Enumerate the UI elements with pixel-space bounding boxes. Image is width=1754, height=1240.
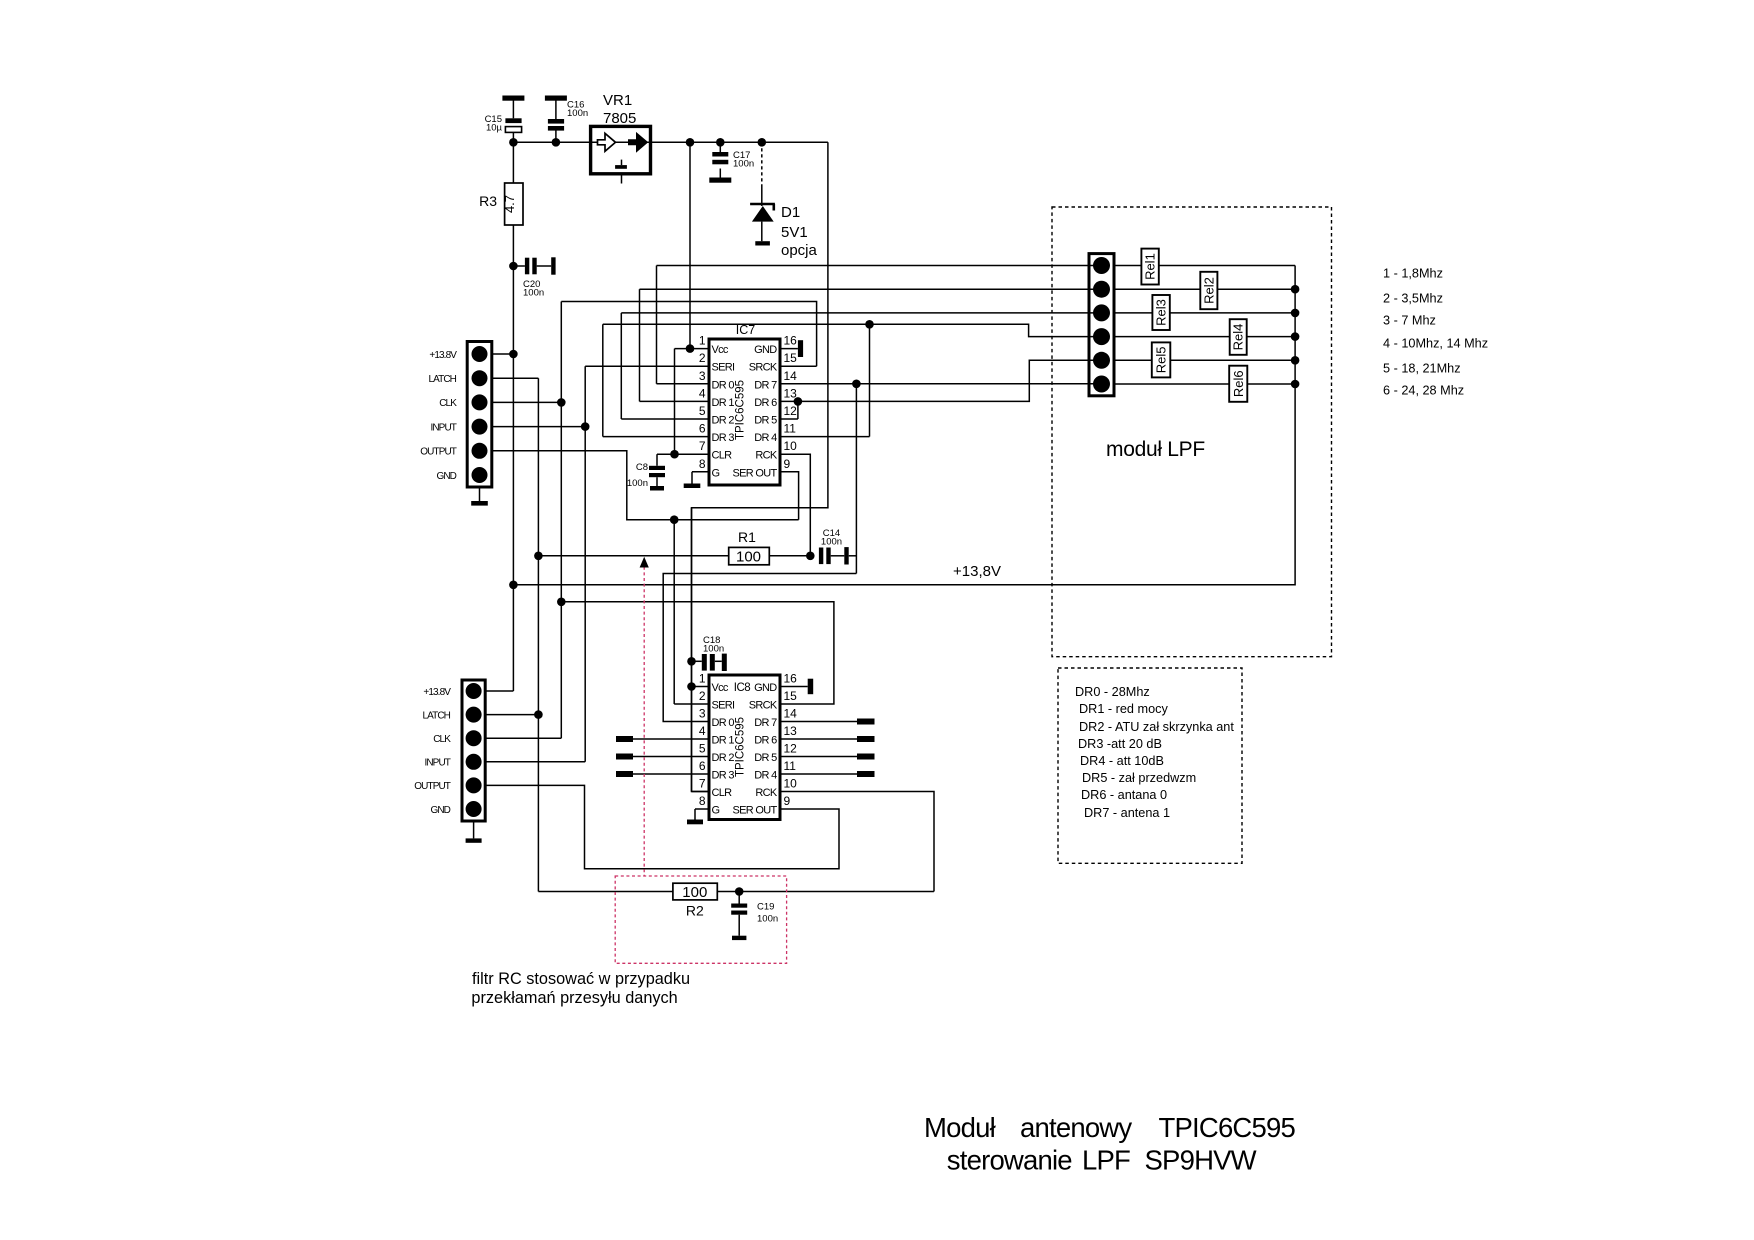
svg-text:GND: GND <box>754 344 777 356</box>
svg-text:TPIC6C595: TPIC6C595 <box>735 380 747 440</box>
svg-text:GND: GND <box>436 471 456 482</box>
svg-text:DR 3: DR 3 <box>712 432 735 444</box>
svg-text:14: 14 <box>784 369 798 383</box>
svg-text:16: 16 <box>784 334 798 348</box>
svg-text:SERI: SERI <box>712 362 736 374</box>
svg-text:11: 11 <box>784 422 797 436</box>
svg-text:C19: C19 <box>757 902 774 913</box>
svg-text:16: 16 <box>784 672 798 686</box>
svg-text:1: 1 <box>699 672 706 686</box>
svg-text:14: 14 <box>784 707 798 721</box>
svg-text:9: 9 <box>784 794 791 808</box>
svg-text:G: G <box>712 805 720 817</box>
svg-text:DR 4: DR 4 <box>754 432 777 444</box>
svg-text:100: 100 <box>736 548 761 565</box>
svg-text:opcja: opcja <box>781 242 818 259</box>
svg-text:1: 1 <box>699 334 706 348</box>
svg-text:10: 10 <box>784 439 798 453</box>
svg-text:100n: 100n <box>567 108 588 119</box>
svg-text:INPUT: INPUT <box>424 758 450 769</box>
svg-text:IC7: IC7 <box>736 323 756 337</box>
svg-text:100n: 100n <box>703 644 724 655</box>
svg-text:2: 2 <box>699 689 706 703</box>
svg-text:DR4 - att 10dB: DR4 - att 10dB <box>1080 754 1164 768</box>
svg-text:DR3 -att 20 dB: DR3 -att 20 dB <box>1078 737 1162 751</box>
svg-text:DR2 - ATU zał skrzynka ant: DR2 - ATU zał skrzynka ant <box>1079 720 1234 734</box>
svg-text:7: 7 <box>699 439 706 453</box>
svg-text:Rel2: Rel2 <box>1201 277 1216 304</box>
svg-text:6: 6 <box>699 759 706 773</box>
svg-text:LATCH: LATCH <box>422 710 450 721</box>
svg-text:SERI: SERI <box>712 700 736 712</box>
svg-text:SER OUT: SER OUT <box>733 467 778 479</box>
svg-text:7: 7 <box>699 777 706 791</box>
svg-text:3: 3 <box>699 369 706 383</box>
svg-text:100n: 100n <box>627 478 648 489</box>
svg-text:CLK: CLK <box>433 734 451 745</box>
svg-text:1 - 1,8Mhz: 1 - 1,8Mhz <box>1383 267 1443 281</box>
svg-text:DR 1: DR 1 <box>712 397 735 409</box>
svg-text:2: 2 <box>699 351 706 365</box>
svg-text:6: 6 <box>699 422 706 436</box>
svg-text:DR 5: DR 5 <box>754 415 777 427</box>
svg-text:DR 5: DR 5 <box>754 752 777 764</box>
svg-text:+13.8V: +13.8V <box>429 350 457 361</box>
svg-text:moduł LPF: moduł LPF <box>1106 438 1205 461</box>
svg-text:R2: R2 <box>686 903 704 919</box>
svg-text:filtr RC stosować w przypadku: filtr RC stosować w przypadku <box>472 970 690 988</box>
svg-text:ModułantenowyTPIC6C595: ModułantenowyTPIC6C595 <box>924 1112 1295 1143</box>
svg-text:R3: R3 <box>479 193 497 209</box>
svg-text:15: 15 <box>784 689 798 703</box>
svg-text:CLK: CLK <box>439 398 457 409</box>
svg-text:Vcc: Vcc <box>712 344 729 356</box>
svg-text:10µ: 10µ <box>486 123 503 134</box>
svg-text:DR 6: DR 6 <box>754 397 777 409</box>
svg-text:DR 4: DR 4 <box>754 770 777 782</box>
svg-text:2 - 3,5Mhz: 2 - 3,5Mhz <box>1383 291 1443 305</box>
svg-text:GND: GND <box>430 805 450 816</box>
svg-text:+13.8V: +13.8V <box>423 687 451 698</box>
svg-text:3: 3 <box>699 707 706 721</box>
svg-text:DR 0: DR 0 <box>712 379 735 391</box>
svg-text:3 - 7 Mhz: 3 - 7 Mhz <box>1383 314 1436 328</box>
svg-text:5V1: 5V1 <box>781 224 808 241</box>
svg-text:6 - 24, 28 Mhz: 6 - 24, 28 Mhz <box>1383 384 1464 398</box>
svg-text:5: 5 <box>699 404 706 418</box>
svg-text:13: 13 <box>784 724 798 738</box>
svg-text:OUTPUT: OUTPUT <box>420 447 457 458</box>
svg-text:100n: 100n <box>523 288 544 299</box>
svg-text:DR7 - antena 1: DR7 - antena 1 <box>1084 806 1170 820</box>
svg-text:12: 12 <box>784 404 798 418</box>
svg-text:DR 6: DR 6 <box>754 735 777 747</box>
svg-text:100n: 100n <box>733 159 754 170</box>
svg-text:15: 15 <box>784 351 798 365</box>
svg-text:7805: 7805 <box>603 110 636 127</box>
svg-text:przekłamań przesyłu danych: przekłamań przesyłu danych <box>471 989 677 1007</box>
svg-text:R1: R1 <box>738 529 756 545</box>
svg-text:INPUT: INPUT <box>430 422 456 433</box>
svg-text:5: 5 <box>699 742 706 756</box>
svg-text:DR 3: DR 3 <box>712 770 735 782</box>
svg-text:4: 4 <box>699 386 706 400</box>
svg-text:DR6 - antana 0: DR6 - antana 0 <box>1081 788 1167 802</box>
svg-text:SER OUT: SER OUT <box>733 805 778 817</box>
svg-text:sterowanieLPFSP9HVW: sterowanieLPFSP9HVW <box>947 1145 1257 1176</box>
svg-text:+13,8V: +13,8V <box>953 563 1001 580</box>
svg-text:DR 0: DR 0 <box>712 717 735 729</box>
svg-text:Vcc: Vcc <box>712 682 729 694</box>
svg-text:Rel1: Rel1 <box>1143 253 1158 280</box>
svg-text:9: 9 <box>784 457 791 471</box>
svg-text:100: 100 <box>682 884 707 901</box>
svg-text:11: 11 <box>784 759 797 773</box>
svg-text:GND: GND <box>754 682 777 694</box>
svg-text:Rel6: Rel6 <box>1231 370 1246 397</box>
svg-text:DR5 - zał przedwzm: DR5 - zał przedwzm <box>1082 771 1196 785</box>
svg-text:DR 7: DR 7 <box>754 379 777 391</box>
svg-text:G: G <box>712 467 720 479</box>
svg-text:Rel5: Rel5 <box>1154 347 1169 374</box>
svg-text:4.7: 4.7 <box>502 195 517 213</box>
svg-text:LATCH: LATCH <box>428 374 456 385</box>
svg-text:100n: 100n <box>821 537 842 548</box>
svg-text:RCK: RCK <box>755 450 777 462</box>
svg-text:100n: 100n <box>757 914 778 925</box>
svg-text:8: 8 <box>699 794 706 808</box>
svg-text:C8: C8 <box>636 462 648 473</box>
svg-text:SRCK: SRCK <box>749 362 778 374</box>
svg-text:5 - 18, 21Mhz: 5 - 18, 21Mhz <box>1383 361 1461 375</box>
svg-text:VR1: VR1 <box>603 92 632 109</box>
svg-text:CLR: CLR <box>712 450 733 462</box>
svg-text:IC8: IC8 <box>734 682 751 694</box>
svg-text:DR0 - 28Mhz: DR0 - 28Mhz <box>1075 685 1150 699</box>
svg-text:4: 4 <box>699 724 706 738</box>
svg-text:TPIC6C595: TPIC6C595 <box>735 717 747 777</box>
svg-text:10: 10 <box>784 777 798 791</box>
svg-text:4 - 10Mhz, 14 Mhz: 4 - 10Mhz, 14 Mhz <box>1383 337 1488 351</box>
svg-text:12: 12 <box>784 742 798 756</box>
svg-text:DR 2: DR 2 <box>712 752 735 764</box>
svg-text:DR 2: DR 2 <box>712 415 735 427</box>
svg-text:CLR: CLR <box>712 787 733 799</box>
svg-text:D1: D1 <box>781 204 800 221</box>
svg-text:RCK: RCK <box>755 787 777 799</box>
svg-text:8: 8 <box>699 457 706 471</box>
svg-text:DR1 - red mocy: DR1 - red mocy <box>1079 702 1168 716</box>
svg-text:Rel3: Rel3 <box>1154 299 1169 326</box>
svg-text:SRCK: SRCK <box>749 700 778 712</box>
svg-text:Rel4: Rel4 <box>1231 324 1246 351</box>
svg-text:DR 1: DR 1 <box>712 735 735 747</box>
svg-text:13: 13 <box>784 386 798 400</box>
svg-text:OUTPUT: OUTPUT <box>414 781 451 792</box>
svg-text:DR 7: DR 7 <box>754 717 777 729</box>
